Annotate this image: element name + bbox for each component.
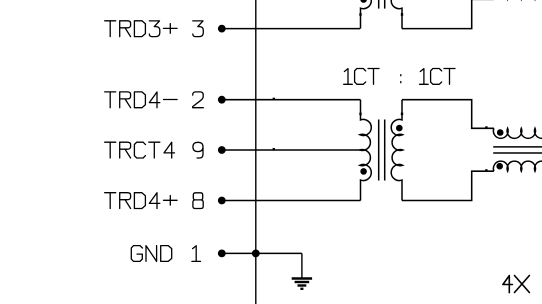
transformer (top channel, partially visible) left winding <box>360 0 371 29</box>
transformer core lines <box>378 120 380 181</box>
top transformer core lines <box>378 0 380 9</box>
pin 8 terminal dot <box>218 197 226 205</box>
label GND pin 1 label <box>131 246 200 262</box>
choke core lines <box>493 146 542 148</box>
pin end tick top T left stub <box>359 13 361 16</box>
left winding polarity dot <box>360 168 367 175</box>
label turns ratio 1CT : 1CT <box>344 69 455 85</box>
junction dot GND on bus <box>252 250 260 258</box>
connector body edge (vertical bus line) <box>255 0 257 304</box>
choke bottom polarity dot <box>496 163 503 170</box>
right winding polarity dot <box>396 125 403 132</box>
top transformer left polarity dot <box>360 0 367 3</box>
ground symbol <box>292 253 312 288</box>
transformer T (middle channel) left winding <box>360 100 371 201</box>
pin end tick choke top <box>485 126 487 129</box>
wire pin9 to center tap <box>222 149 360 151</box>
transformer right winding <box>391 100 402 201</box>
pin 2 terminal dot <box>218 96 226 104</box>
common-mode choke top coil <box>493 128 542 138</box>
top transformer right winding <box>391 0 402 29</box>
wire top T right to top-channel choke <box>402 0 494 29</box>
label TRD3+ pin 3 label <box>105 21 204 37</box>
pin 3 terminal dot <box>218 25 226 33</box>
label 4X (quantity) <box>503 276 530 293</box>
wire T right bottom to choke <box>402 171 494 200</box>
pin end tick row3 <box>273 148 275 151</box>
wire pin2 to T-left stub <box>222 99 361 101</box>
pin end tick choke bottom <box>485 169 487 172</box>
common-mode choke bottom coil <box>493 161 542 171</box>
wire pin1 to ground <box>222 252 302 254</box>
wire pin3 to T-left stub <box>222 28 360 30</box>
label TRD4- pin 2 label <box>105 92 204 108</box>
pin end tick T left stub <box>359 113 361 116</box>
pin end tick T right stub <box>401 113 403 116</box>
pin end tick row2 <box>273 98 275 101</box>
label TRCT4 pin 9 label <box>105 142 203 158</box>
choke top polarity dot <box>497 129 504 136</box>
pin 1 terminal dot <box>218 250 226 258</box>
wire T right top to choke <box>402 100 494 129</box>
pin end tick top T right stub <box>401 13 403 16</box>
pin 9 terminal dot <box>218 146 226 154</box>
label TRD4+ pin 8 label <box>105 193 204 209</box>
wire pin8 to T-left stub <box>222 200 361 202</box>
